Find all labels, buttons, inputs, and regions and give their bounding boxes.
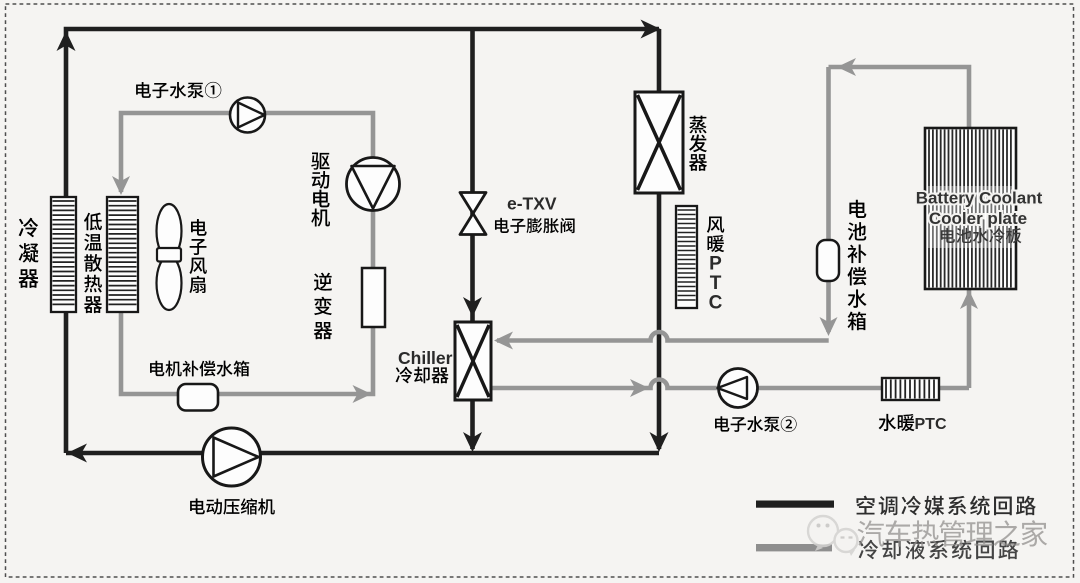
svg-text:Battery Coolant: Battery Coolant bbox=[916, 189, 1043, 208]
svg-text:Cooler plate: Cooler plate bbox=[929, 209, 1027, 228]
svg-text:PTC: PTC bbox=[915, 416, 947, 433]
svg-text:e-TXV: e-TXV bbox=[507, 194, 557, 214]
svg-text:C: C bbox=[709, 293, 723, 314]
svg-text:T: T bbox=[710, 273, 722, 294]
svg-text:P: P bbox=[709, 254, 722, 275]
svg-text:Chiller: Chiller bbox=[398, 348, 453, 368]
